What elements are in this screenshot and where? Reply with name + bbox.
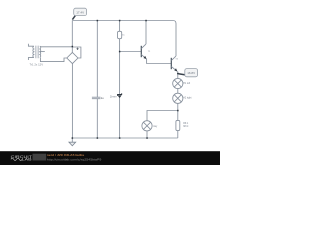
wire T1 collector riser <box>145 21 147 45</box>
wire branch to tray lamp <box>147 111 178 121</box>
wire left riser to bridge <box>71 21 73 53</box>
wire below zener <box>119 98 121 138</box>
lamp H2 <box>173 93 183 103</box>
junction dots <box>72 20 179 139</box>
wire bottom rail <box>72 137 178 139</box>
svg-text:nerd / JVC KD-A5 bulbs: nerd / JVC KD-A5 bulbs <box>47 153 85 157</box>
ground <box>69 138 76 146</box>
svg-text:http://circuitlab.com/c/xq2545: http://circuitlab.com/c/xq2545btaP9 <box>47 158 102 162</box>
transistor T1 <box>141 44 146 59</box>
wire T1 emitter to T2 base <box>147 59 171 64</box>
bridge rectifier B1 <box>67 52 78 63</box>
wire T1 base feed <box>120 51 141 53</box>
wire bridge minus to rail <box>71 64 73 138</box>
svg-text:H1 left: H1 left <box>183 82 190 85</box>
watermark bar <box>0 151 220 165</box>
svg-text:Zener: Zener <box>110 94 117 98</box>
svg-text:Tr1 2x 12V: Tr1 2x 12V <box>30 63 44 67</box>
resistor R1 <box>118 31 122 38</box>
zener diode D1 <box>118 93 122 98</box>
wire bridge plus routing <box>72 47 81 58</box>
wire lamp2 to R2 <box>177 103 179 120</box>
resistor R2 <box>176 120 180 130</box>
svg-text:16.8V: 16.8V <box>187 71 195 75</box>
bridge plus sign <box>76 48 78 50</box>
wire between lamps <box>177 89 179 94</box>
wire tray lamp to rail <box>146 131 148 138</box>
node callout right (net voltage flag) <box>178 69 197 77</box>
node callout top (net voltage flag) <box>72 8 86 19</box>
svg-text:LAB: LAB <box>22 157 32 162</box>
svg-text:H2 right: H2 right <box>183 97 192 100</box>
wire T2 emitter drop <box>177 72 179 79</box>
capacitor C2 <box>92 97 101 99</box>
wire R1 to zener <box>119 39 121 94</box>
wire branch C2 <box>96 21 98 98</box>
svg-text:68 Ω: 68 Ω <box>183 125 188 128</box>
lamp H1 <box>173 78 183 88</box>
wire below C2 <box>96 99 98 138</box>
wire branch R1 top <box>119 21 121 32</box>
svg-text:17.4V: 17.4V <box>76 10 84 14</box>
transistor T2 <box>171 56 177 72</box>
wire top rail <box>72 21 176 57</box>
wire R2 to rail <box>177 131 179 138</box>
transformer Tr1 <box>28 44 72 62</box>
CircuitLab logo <box>11 154 47 162</box>
lamp H3 tray <box>142 121 152 131</box>
